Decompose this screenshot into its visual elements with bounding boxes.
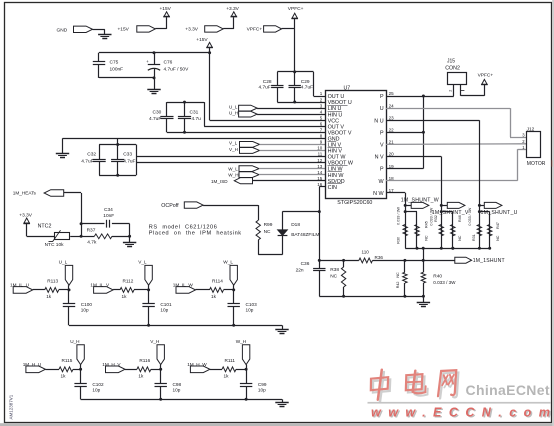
svg-text:N V: N V — [375, 155, 384, 161]
svg-text:1M_SHUNT_U: 1M_SHUNT_U — [481, 210, 518, 216]
svg-text:C76: C76 — [164, 60, 173, 66]
svg-text:4.7k: 4.7k — [87, 239, 97, 245]
svg-text:U_H: U_H — [70, 339, 79, 344]
svg-text:1k: 1k — [122, 294, 128, 299]
svg-text:10p: 10p — [246, 307, 254, 312]
svg-text:VPFC+: VPFC+ — [288, 6, 304, 12]
svg-text:+15V: +15V — [160, 6, 172, 12]
svg-text:C32: C32 — [87, 152, 96, 158]
svg-text:4.7uF: 4.7uF — [259, 85, 271, 91]
svg-text:P: P — [380, 94, 384, 100]
svg-text:R114: R114 — [212, 279, 223, 284]
svg-text:BAT48ZFILM: BAT48ZFILM — [291, 232, 319, 238]
svg-text:R113: R113 — [47, 279, 58, 284]
svg-text:C28: C28 — [263, 79, 272, 85]
svg-text:C100: C100 — [81, 302, 93, 307]
svg-text:STGIPS20C60: STGIPS20C60 — [337, 200, 372, 206]
svg-text:10p: 10p — [92, 388, 100, 393]
svg-text:V_L: V_L — [138, 260, 147, 265]
svg-text:W_L: W_L — [228, 167, 238, 172]
svg-text:V_H: V_H — [229, 147, 238, 152]
svg-text:V_L: V_L — [229, 141, 238, 146]
svg-text:2: 2 — [449, 90, 453, 92]
svg-text:1k: 1k — [61, 373, 67, 378]
svg-text:+15V: +15V — [118, 27, 130, 33]
svg-text:NTC 10k: NTC 10k — [45, 242, 65, 248]
svg-text:100nF: 100nF — [110, 66, 124, 72]
svg-text:C75: C75 — [110, 60, 119, 66]
svg-text:U_H: U_H — [229, 111, 238, 116]
svg-text:C102: C102 — [92, 382, 104, 387]
svg-text:U7: U7 — [344, 85, 351, 91]
svg-text:+3.3V: +3.3V — [185, 27, 198, 33]
svg-text:R38: R38 — [330, 267, 339, 273]
svg-text:1M_HEATs: 1M_HEATs — [13, 191, 37, 196]
svg-text:C30: C30 — [153, 109, 162, 115]
svg-text:W_L: W_L — [223, 260, 233, 265]
svg-text:4.7u: 4.7u — [192, 116, 202, 122]
svg-text:R36: R36 — [375, 255, 384, 260]
svg-text:1M_1SHUNT: 1M_1SHUNT — [473, 258, 505, 264]
svg-text:10p: 10p — [173, 388, 181, 393]
svg-text:R46: R46 — [458, 215, 462, 222]
svg-text:22: 22 — [389, 128, 395, 133]
svg-text:R42: R42 — [396, 282, 400, 289]
svg-text:R32: R32 — [434, 215, 438, 222]
svg-text:V: V — [380, 143, 384, 149]
svg-text:24: 24 — [389, 103, 395, 108]
svg-text:R47: R47 — [496, 222, 500, 229]
svg-text:14: 14 — [317, 170, 323, 175]
svg-text:1M_SHUNT_W: 1M_SHUNT_W — [401, 198, 439, 204]
svg-text:15: 15 — [317, 176, 323, 181]
svg-text:GND: GND — [57, 27, 68, 33]
svg-text:U_L: U_L — [229, 104, 238, 109]
svg-text:NC: NC — [496, 235, 500, 241]
svg-text:Placed on the IPM heatsink: Placed on the IPM heatsink — [149, 230, 242, 236]
svg-text:CON2: CON2 — [445, 65, 460, 71]
svg-text:R45: R45 — [424, 221, 428, 228]
svg-text:+3.3V: +3.3V — [19, 212, 32, 218]
svg-text:12: 12 — [317, 158, 323, 163]
svg-text:P: P — [380, 167, 384, 173]
svg-text:0.033 / 3W: 0.033 / 3W — [397, 206, 401, 224]
svg-text:P: P — [380, 130, 384, 136]
svg-text:1k: 1k — [224, 373, 230, 378]
svg-text:R116: R116 — [139, 358, 150, 363]
svg-text:10nF: 10nF — [103, 213, 114, 219]
svg-text:0.033 / 3W: 0.033 / 3W — [433, 280, 456, 285]
svg-text:www.ECCN.com: www.ECCN.com — [371, 406, 554, 420]
svg-text:4.7uF / 50V: 4.7uF / 50V — [164, 66, 190, 72]
svg-text:ChinaECNet: ChinaECNet — [466, 382, 550, 398]
svg-text:+3.3V: +3.3V — [226, 6, 239, 12]
svg-text:NTC2: NTC2 — [38, 224, 52, 230]
svg-text:C103: C103 — [246, 302, 258, 307]
svg-text:N W: N W — [373, 191, 384, 197]
svg-text:W: W — [379, 179, 385, 185]
svg-text:C29: C29 — [301, 79, 310, 85]
svg-text:C33: C33 — [123, 152, 132, 158]
svg-text:NC: NC — [424, 235, 428, 241]
svg-text:AM12387V1: AM12387V1 — [9, 394, 14, 419]
svg-text:25: 25 — [389, 91, 395, 96]
svg-text:D18: D18 — [291, 222, 300, 228]
svg-text:RS model C621/1206: RS model C621/1206 — [149, 224, 218, 230]
svg-text:C99: C99 — [258, 382, 267, 387]
svg-text:+15V: +15V — [196, 37, 208, 43]
svg-text:R115: R115 — [62, 358, 73, 363]
svg-text:CIN: CIN — [328, 185, 337, 191]
svg-text:C101: C101 — [160, 302, 172, 307]
svg-text:W_H: W_H — [236, 339, 246, 344]
svg-text:R37: R37 — [87, 227, 96, 233]
svg-text:10p: 10p — [81, 307, 89, 312]
svg-text:R112: R112 — [123, 279, 134, 284]
svg-text:VPFC+: VPFC+ — [247, 27, 263, 33]
svg-text:C36: C36 — [301, 261, 310, 267]
svg-text:V_H: V_H — [150, 339, 159, 344]
svg-text:1k: 1k — [46, 294, 52, 299]
svg-text:1k: 1k — [211, 294, 217, 299]
svg-text:C34: C34 — [104, 207, 113, 213]
svg-text:R30: R30 — [397, 237, 401, 244]
svg-text:13: 13 — [317, 164, 323, 169]
svg-text:NC: NC — [458, 235, 462, 241]
svg-text:4.7uF: 4.7uF — [81, 158, 93, 164]
svg-text:U_L: U_L — [59, 260, 68, 265]
svg-text:U: U — [380, 106, 384, 112]
svg-text:4.7uF: 4.7uF — [123, 158, 135, 164]
svg-text:C31: C31 — [190, 109, 199, 115]
svg-text:OCPoff: OCPoff — [161, 203, 179, 209]
svg-text:W_H: W_H — [228, 173, 238, 178]
svg-text:0.033 / 3W: 0.033 / 3W — [468, 207, 472, 225]
svg-text:10: 10 — [317, 146, 323, 151]
svg-text:NC: NC — [396, 272, 400, 278]
svg-text:R99: R99 — [264, 222, 273, 228]
svg-text:MOTOR: MOTOR — [527, 161, 546, 167]
svg-text:VPFC+: VPFC+ — [478, 72, 494, 78]
svg-text:C98: C98 — [173, 382, 182, 387]
svg-text:10p: 10p — [160, 307, 168, 312]
svg-text:NC: NC — [330, 273, 337, 279]
svg-text:110: 110 — [362, 249, 370, 254]
svg-text:J15: J15 — [447, 58, 455, 64]
svg-text:R40: R40 — [433, 273, 442, 279]
svg-text:0.033 / 3W: 0.033 / 3W — [430, 207, 434, 225]
svg-text:R111: R111 — [225, 358, 236, 363]
svg-text:11: 11 — [318, 152, 323, 157]
svg-text:23: 23 — [389, 115, 395, 120]
svg-text:4.7uF: 4.7uF — [149, 116, 161, 122]
svg-text:NC: NC — [264, 229, 271, 235]
svg-text:10p: 10p — [258, 388, 266, 393]
svg-text:22n: 22n — [296, 267, 304, 273]
svg-text:1M_ISD: 1M_ISD — [211, 179, 228, 184]
svg-text:4.7uF: 4.7uF — [301, 85, 313, 91]
svg-text:1k: 1k — [138, 373, 144, 378]
svg-text:N U: N U — [374, 118, 383, 124]
svg-text:R31: R31 — [472, 234, 476, 241]
